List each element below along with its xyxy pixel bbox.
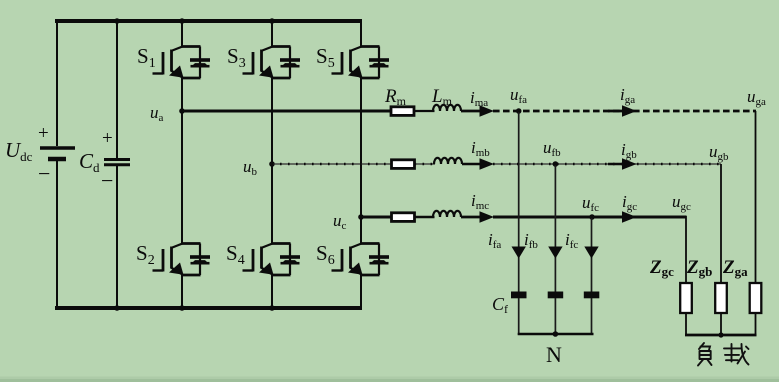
load Zgc xyxy=(680,283,692,313)
current arrow igb xyxy=(608,158,637,170)
wire: phase b dotted ub to Rm xyxy=(272,163,391,165)
wire: top DC rail xyxy=(55,19,362,23)
wire: S2 emitter to bottom rail xyxy=(181,275,183,309)
wire: ufa capacitor branch lower xyxy=(518,298,520,335)
bottom dark strip xyxy=(0,377,779,382)
capacitor Cf phase c xyxy=(584,292,600,299)
capacitor Cf phase a xyxy=(511,292,527,299)
wire: S6 emitter to bottom rail xyxy=(360,275,362,311)
IGBT S1 with freewheeling diode xyxy=(153,47,211,79)
IGBT S4 with freewheeling diode xyxy=(243,244,301,276)
IGBT S5 with freewheeling diode xyxy=(332,47,390,79)
current arrow imc xyxy=(461,211,494,223)
wire: Zgc to load bus xyxy=(685,313,687,335)
label 负载 (load) hand drawn strokes xyxy=(698,343,749,366)
wire: bottom DC rail xyxy=(55,306,362,310)
node: bottom rail / Cd xyxy=(114,305,120,311)
capacitor Cd xyxy=(104,160,130,165)
wire: Cd branch lower xyxy=(116,166,118,310)
wire: phase a dashed ufa to uga corner xyxy=(493,110,756,113)
wire: ufb capacitor branch upper xyxy=(554,165,556,292)
current arrow imb xyxy=(462,158,494,170)
inductor Lm phase c xyxy=(433,211,461,217)
wire: S4 emitter to bottom rail xyxy=(271,275,273,309)
inductor Lm phase a xyxy=(433,105,461,111)
load Zgb xyxy=(715,283,727,313)
wire: phase a ua to Rm xyxy=(182,110,392,113)
wire: ufa capacitor branch upper (dashed) xyxy=(518,112,520,292)
node ufa xyxy=(516,108,522,114)
wire: capacitor common bus to N xyxy=(518,333,594,336)
wire: ugc drop to load Zgc xyxy=(685,216,687,283)
IGBT S6 with freewheeling diode xyxy=(332,244,390,276)
wire: S3 collector xyxy=(271,21,273,47)
node uc xyxy=(358,214,364,220)
current arrow ifa xyxy=(512,247,526,259)
node: top rail / phase b leg xyxy=(269,18,275,24)
current arrow iga xyxy=(608,105,637,117)
resistor Rm phase c xyxy=(392,213,415,222)
resistor Rm phase a xyxy=(391,107,414,116)
current arrow igc xyxy=(622,211,637,223)
svg-text:−: − xyxy=(38,161,50,186)
wire: Zgb to load bus xyxy=(720,313,722,335)
wire: S5 collector xyxy=(360,19,362,47)
node: top rail / Cd xyxy=(114,18,120,24)
wire: phase c solid to ugc corner xyxy=(493,216,686,219)
node: bottom rail / phase a leg xyxy=(179,305,185,311)
node N junction xyxy=(553,331,559,337)
wire: phase c leg between S5 and S6 xyxy=(360,78,362,244)
resistor Rm phase b xyxy=(392,160,415,169)
wire: ufc capacitor branch upper (dashed) xyxy=(591,218,593,292)
wire: uga drop to load Zga xyxy=(755,111,757,283)
svg-text:+: + xyxy=(102,128,113,149)
svg-text:+: + xyxy=(38,123,49,144)
load Zga xyxy=(750,283,762,313)
wire: phase a leg between S1 and S2 xyxy=(181,78,183,244)
wire: left DC bus upper xyxy=(56,19,58,146)
current arrow ifc xyxy=(584,247,598,259)
svg-text:−: − xyxy=(101,168,113,193)
wire: phase b dotted ufb to ugb corner xyxy=(493,163,721,165)
svg-text:N: N xyxy=(546,342,562,367)
node: load bus / Zgb xyxy=(718,332,723,337)
wire: Zga to load bus xyxy=(755,313,757,335)
wire: ufc capacitor branch lower xyxy=(591,298,593,335)
battery Udc xyxy=(40,148,75,159)
current arrow ifb xyxy=(548,247,562,259)
wire: Cd branch upper xyxy=(116,19,118,158)
node ub xyxy=(269,161,275,167)
node: top rail / phase a leg xyxy=(179,18,185,24)
wire: load common bus xyxy=(685,334,757,337)
wire: ugb drop to load Zgb xyxy=(720,164,722,283)
node: bottom rail / phase b leg xyxy=(269,305,275,311)
wire: phase b leg between S3 and S4 xyxy=(271,78,273,244)
node ufb xyxy=(553,161,559,167)
wire: ufb capacitor branch lower xyxy=(554,298,556,335)
wire: left DC bus lower xyxy=(56,161,58,310)
current arrow ima xyxy=(461,105,494,117)
capacitor Cf phase b xyxy=(548,292,564,299)
node ufc xyxy=(589,214,595,220)
wire: phase a Rm to Lm xyxy=(414,110,435,112)
IGBT S3 with freewheeling diode xyxy=(243,47,301,79)
wire: phase c uc to Rm xyxy=(361,216,393,219)
wire: S1 collector xyxy=(181,21,183,47)
wire: phase b dotted Rm to Lm xyxy=(415,163,436,165)
wire: phase c Rm to Lm xyxy=(414,216,435,218)
IGBT S2 with freewheeling diode xyxy=(153,244,211,276)
inductor Lm phase b xyxy=(434,158,462,164)
node ua xyxy=(179,108,185,114)
